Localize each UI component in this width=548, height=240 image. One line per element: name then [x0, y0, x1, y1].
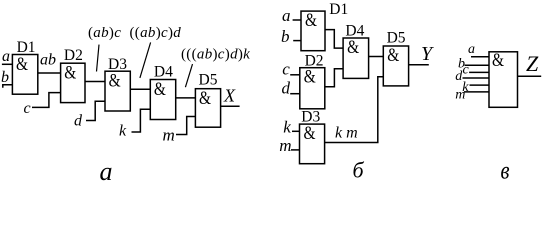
wire input k (fig a) — [132, 109, 151, 132]
wire D4 to D5 (fig b) — [369, 56, 384, 58]
svg-text:a: a — [468, 42, 475, 57]
svg-text:d: d — [282, 79, 291, 98]
wire input m (fig v) — [464, 91, 489, 93]
wire input c (fig a) — [32, 93, 61, 108]
wire input a (fig a) — [2, 63, 13, 65]
wire input b (fig v) — [465, 64, 490, 66]
gate D3 (fig b) — [300, 124, 325, 164]
svg-text:k: k — [119, 123, 127, 140]
gate D4 (fig b) — [343, 38, 369, 78]
wire D3 to D5 km (fig b) — [325, 77, 384, 143]
svg-text:&: & — [199, 88, 211, 109]
svg-text:a: a — [282, 6, 291, 25]
wire input c (fig v) — [469, 71, 489, 73]
wire input b (fig a) — [3, 85, 13, 88]
svg-text:b: b — [281, 27, 290, 46]
svg-text:&: & — [304, 67, 316, 88]
svg-text:d: d — [74, 113, 83, 130]
svg-text:&: & — [109, 71, 121, 92]
wire input d (fig b) — [290, 93, 300, 95]
gate DD (fig v) — [489, 52, 518, 108]
gate D1 (fig a) — [12, 55, 37, 95]
gate D3 (fig a) — [105, 71, 130, 111]
wire D2 output (fig a) — [85, 81, 105, 83]
svg-text:&: & — [16, 54, 28, 75]
svg-text:а: а — [100, 157, 113, 186]
leader line ((ab)c)d (fig a) — [140, 42, 151, 78]
svg-text:Y: Y — [421, 43, 434, 65]
svg-text:(((ab)c)d)k: (((ab)c)d)k — [181, 46, 250, 62]
leader line (((ab)c)d)k (fig a) — [185, 64, 192, 87]
wire input m (fig b) — [291, 149, 300, 151]
wire input c (fig b) — [290, 74, 300, 76]
svg-text:&: & — [305, 10, 317, 31]
svg-text:m: m — [279, 136, 291, 155]
wire D1 to D4 (fig b) — [325, 30, 343, 48]
svg-text:k: k — [283, 118, 291, 137]
wire output Z (fig v) — [518, 75, 542, 77]
gate D4 (fig a) — [150, 80, 175, 120]
wire input m (fig a) — [176, 117, 195, 135]
wire D3 output (fig a) — [130, 88, 150, 90]
svg-text:c: c — [463, 63, 470, 78]
svg-text:&: & — [64, 63, 76, 84]
svg-text:c: c — [282, 59, 290, 78]
gate D1 (fig b) — [301, 11, 325, 51]
wire D1 output ab (fig a) — [38, 72, 61, 74]
leader line (ab)c (fig a) — [97, 45, 100, 72]
svg-text:X: X — [223, 86, 236, 106]
wire input a (fig v) — [471, 56, 489, 58]
svg-text:б: б — [353, 158, 365, 183]
wire input k (fig b) — [292, 130, 300, 132]
svg-text:b: b — [1, 69, 9, 86]
svg-text:c: c — [24, 100, 31, 117]
wire input b (fig b) — [293, 40, 301, 42]
gate D2 (fig b) — [300, 68, 325, 109]
svg-text:&: & — [347, 37, 359, 58]
wire input a (fig b) — [293, 19, 301, 21]
wire input k (fig v) — [470, 84, 490, 86]
wire D2 to D4 (fig b) — [325, 69, 343, 87]
svg-text:&: & — [304, 123, 316, 144]
gate D5 (fig b) — [383, 46, 408, 86]
gate D5 (fig a) — [195, 89, 220, 128]
svg-text:в: в — [501, 158, 510, 185]
svg-text:((ab)c)d: ((ab)c)d — [130, 25, 182, 41]
svg-text:D5: D5 — [199, 72, 218, 89]
wire D4 output (fig a) — [176, 97, 196, 99]
svg-text:(ab)c: (ab)c — [88, 25, 121, 41]
svg-text:Z: Z — [526, 51, 539, 76]
svg-text:&: & — [387, 45, 399, 66]
gate D2 (fig a) — [61, 63, 85, 102]
svg-text:m: m — [163, 126, 175, 145]
svg-text:a: a — [2, 48, 10, 65]
svg-text:m: m — [455, 88, 465, 103]
wire input d (fig a) — [86, 101, 105, 120]
svg-text:k m: k m — [335, 124, 358, 141]
svg-text:&: & — [154, 79, 166, 100]
svg-text:D1: D1 — [329, 1, 348, 18]
svg-text:&: & — [492, 50, 504, 71]
wire input d (fig v) — [463, 77, 490, 79]
wire output X (fig a) — [221, 105, 240, 107]
wire output Y (fig b) — [409, 64, 429, 66]
svg-text:ab: ab — [40, 51, 56, 68]
